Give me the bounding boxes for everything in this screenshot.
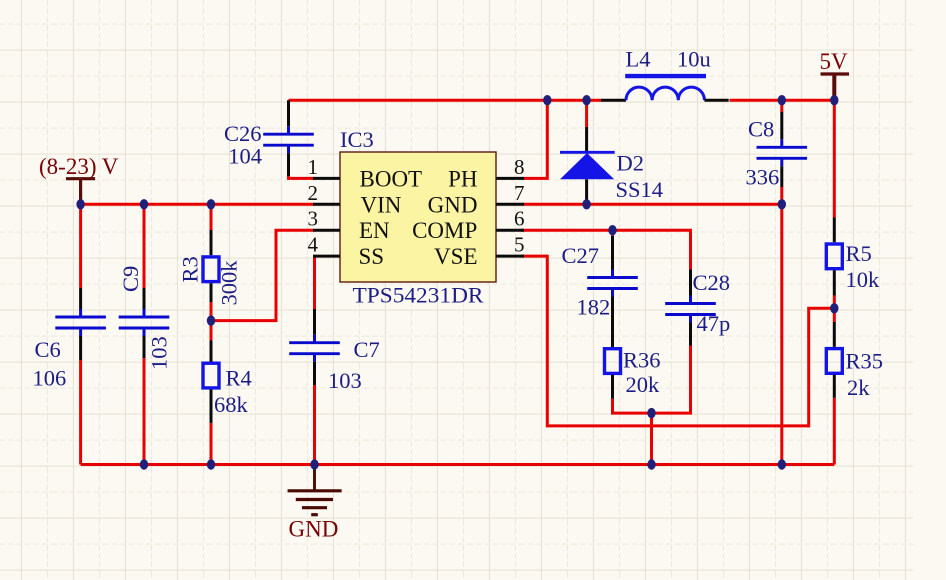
junction R3 tap on input net <box>207 199 215 209</box>
svg-text:5V: 5V <box>820 49 849 74</box>
svg-text:3: 3 <box>308 207 319 231</box>
wire C6 branch top <box>79 204 82 288</box>
wire C8 node down to ground bus <box>780 204 783 464</box>
junction D2 anode on GND row <box>582 199 590 209</box>
svg-text:SS: SS <box>359 244 385 269</box>
svg-text:D2: D2 <box>617 151 645 176</box>
pin 4 SS <box>308 233 385 270</box>
wire 5V corner down to R5 <box>833 100 836 217</box>
svg-text:106: 106 <box>33 366 67 391</box>
svg-text:TPS54231DR: TPS54231DR <box>353 283 484 308</box>
svg-text:EN: EN <box>359 218 390 243</box>
capacitor C26 <box>263 100 314 176</box>
svg-text:5: 5 <box>514 233 525 257</box>
wire R3 top <box>210 204 213 230</box>
svg-text:C7: C7 <box>354 337 380 362</box>
junction C8 tap on 5V net <box>778 95 786 105</box>
svg-text:10u: 10u <box>677 47 711 72</box>
wire input net from power port to pin 2 VIN <box>81 203 314 206</box>
pin 8 PH <box>448 155 524 192</box>
resistor R3 <box>203 230 219 321</box>
wire D2 cathode to PH net <box>585 100 588 127</box>
svg-text:VSE: VSE <box>434 244 477 269</box>
svg-text:COMP: COMP <box>412 218 477 243</box>
power port (8-23) V <box>39 154 119 204</box>
junction C7/GND on ground bus <box>310 459 318 469</box>
junction C27 tap on COMP net <box>608 225 616 235</box>
wire feedback net from pin 5 VSE to R5/R35 node <box>521 256 834 426</box>
junction pin 8 riser on PH net <box>543 95 551 105</box>
capacitor C8 <box>757 112 808 187</box>
svg-text:(8-23) V: (8-23) V <box>39 154 119 179</box>
wire SS pin 4 down to C7 <box>313 256 316 309</box>
svg-text:47p: 47p <box>697 311 731 336</box>
svg-text:C28: C28 <box>693 270 731 295</box>
IC3 TPS54231DR body <box>340 152 496 282</box>
svg-text:20k: 20k <box>626 372 661 397</box>
capacitor C7 <box>289 309 340 385</box>
svg-text:R36: R36 <box>623 348 661 373</box>
svg-text:PH: PH <box>448 166 477 191</box>
pin 1 BOOT <box>308 155 423 192</box>
svg-text:2k: 2k <box>847 375 870 400</box>
svg-text:R35: R35 <box>846 349 884 374</box>
wire BOOT net: C26 corner to pin 1 <box>289 174 315 178</box>
svg-text:104: 104 <box>228 144 262 169</box>
wire PH net: C26 top corner to L4 left <box>289 99 602 102</box>
junction C8 bottom on GND row <box>778 199 786 209</box>
svg-text:C8: C8 <box>748 117 774 142</box>
svg-text:GND: GND <box>289 517 339 542</box>
junction 5V port node <box>830 95 838 105</box>
svg-text:C27: C27 <box>562 243 600 268</box>
pin 7 GND <box>428 181 525 218</box>
svg-text:103: 103 <box>147 336 172 370</box>
pin 3 EN <box>308 207 391 244</box>
resistor R5 <box>826 218 842 309</box>
wire C8 top stub <box>780 100 783 112</box>
resistor R35 <box>826 308 842 398</box>
wire C8 bottom to GND row <box>780 187 783 204</box>
diode D2 SS14 <box>560 127 615 204</box>
svg-text:182: 182 <box>577 295 611 320</box>
svg-text:SS14: SS14 <box>616 177 664 202</box>
power port 5V <box>820 49 850 100</box>
junction C9 tap on input net <box>140 199 148 209</box>
inductor L4 <box>601 76 729 100</box>
capacitor C28 <box>665 270 716 346</box>
junction C8 branch on ground bus <box>778 459 786 469</box>
wire bottom ground bus <box>81 463 835 466</box>
junction input power port node <box>76 199 84 209</box>
wire COMP net from pin 6 to C28 <box>521 230 691 269</box>
wire C6 branch bottom <box>79 360 82 465</box>
svg-text:68k: 68k <box>214 392 249 417</box>
wire C9 branch top <box>143 204 146 288</box>
junction D2 tap on PH net <box>582 95 590 105</box>
capacitor C9 <box>119 288 170 358</box>
wire R36 node down to ground bus <box>650 413 653 464</box>
svg-text:VIN: VIN <box>361 192 402 217</box>
wire R4 bottom <box>210 423 213 465</box>
svg-text:GND: GND <box>428 192 478 217</box>
pin 5 VSE <box>434 233 524 270</box>
wire pin 8 riser to PH net <box>524 100 547 178</box>
svg-text:L4: L4 <box>626 47 651 72</box>
junction R4 on ground bus <box>207 459 215 469</box>
svg-text:1: 1 <box>308 155 319 179</box>
wire R35 bottom to ground bus <box>833 398 836 465</box>
pin 6 COMP <box>412 207 524 244</box>
svg-text:R5: R5 <box>846 241 872 266</box>
capacitor C27 <box>611 230 614 236</box>
svg-text:R4: R4 <box>226 366 252 391</box>
svg-text:IC3: IC3 <box>340 127 374 152</box>
capacitor C6 <box>55 288 106 360</box>
wire C9 branch bottom <box>143 358 146 465</box>
ground symbol GND <box>288 465 342 515</box>
wire EN net from R3/R4 node to pin 3 <box>211 230 314 320</box>
junction R36/C28 bottom node <box>647 408 655 418</box>
svg-text:7: 7 <box>514 181 525 205</box>
svg-text:10k: 10k <box>846 267 881 292</box>
resistor R36 <box>605 349 621 399</box>
svg-text:300k: 300k <box>217 260 242 306</box>
junction compensation branch on ground bus <box>647 459 655 469</box>
svg-text:C26: C26 <box>224 121 262 146</box>
svg-text:336: 336 <box>746 165 780 190</box>
pin 2 VIN <box>308 181 402 218</box>
junction node EN divider R3/R4 <box>207 315 215 325</box>
svg-text:R3: R3 <box>178 256 203 282</box>
wire GND net row from pin 7 to C8 <box>522 203 782 206</box>
wire 5V net: L4 right to 5V corner <box>730 99 835 102</box>
wire C7 bottom to ground bus <box>313 385 316 465</box>
wire R36 bottom / C28 bottom loop <box>613 346 691 414</box>
svg-text:4: 4 <box>308 233 319 257</box>
svg-text:6: 6 <box>514 207 525 231</box>
svg-text:BOOT: BOOT <box>360 166 423 191</box>
junction feedback node R5/R35 <box>830 303 838 313</box>
svg-text:8: 8 <box>514 155 525 179</box>
svg-text:C6: C6 <box>35 337 61 362</box>
svg-text:2: 2 <box>308 181 319 205</box>
svg-text:103: 103 <box>328 368 362 393</box>
resistor R4 <box>203 321 219 423</box>
junction C9 on ground bus <box>140 459 148 469</box>
svg-text:C9: C9 <box>118 266 143 292</box>
